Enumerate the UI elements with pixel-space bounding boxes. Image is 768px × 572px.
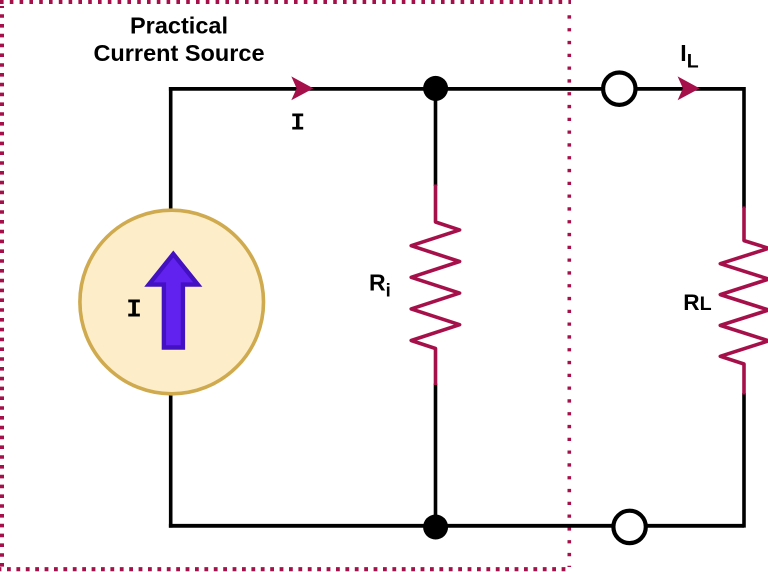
dotted boundary box: left edge — [0, 6, 4, 571]
dotted boundary box: bottom edge — [0, 567, 571, 571]
svg-text:I: I — [126, 295, 142, 325]
load resistor RL (zigzag with leads) — [720, 207, 768, 395]
current arrow I on top wire — [291, 76, 313, 100]
svg-text:Practical: Practical — [130, 13, 228, 39]
wire: left vertical upper (source top lead) — [169, 87, 173, 210]
svg-text:Current Source: Current Source — [93, 40, 264, 66]
title: Practical Current Source — [93, 13, 264, 66]
terminal bottom (open circle) — [613, 511, 645, 543]
wire: bottom horizontal — [169, 524, 744, 528]
dotted boundary box: right edge — [567, 6, 571, 567]
svg-text:I: I — [290, 111, 305, 138]
resistor Ri (zigzag with leads) — [411, 185, 459, 386]
terminal top (open circle) — [603, 73, 635, 105]
wire: middle vertical upper (to Ri) — [434, 89, 438, 186]
current source CS1: internal upward arrow — [149, 254, 198, 348]
wire: middle vertical lower (from Ri) — [434, 384, 438, 526]
junction node bottom — [423, 515, 448, 540]
wire: right vertical lower (from RL) — [742, 393, 746, 528]
wire: top horizontal from source to load corner — [169, 87, 744, 91]
wire: right vertical upper (to RL) — [742, 87, 746, 208]
current source CS1: circle — [80, 210, 264, 394]
wire: left vertical lower (source bottom lead) — [169, 394, 173, 528]
dotted boundary box of practical current source: top edge — [0, 0, 571, 4]
junction node top — [423, 76, 448, 101]
load current arrow IL — [678, 76, 700, 100]
svg-text:RL: RL — [683, 290, 711, 315]
